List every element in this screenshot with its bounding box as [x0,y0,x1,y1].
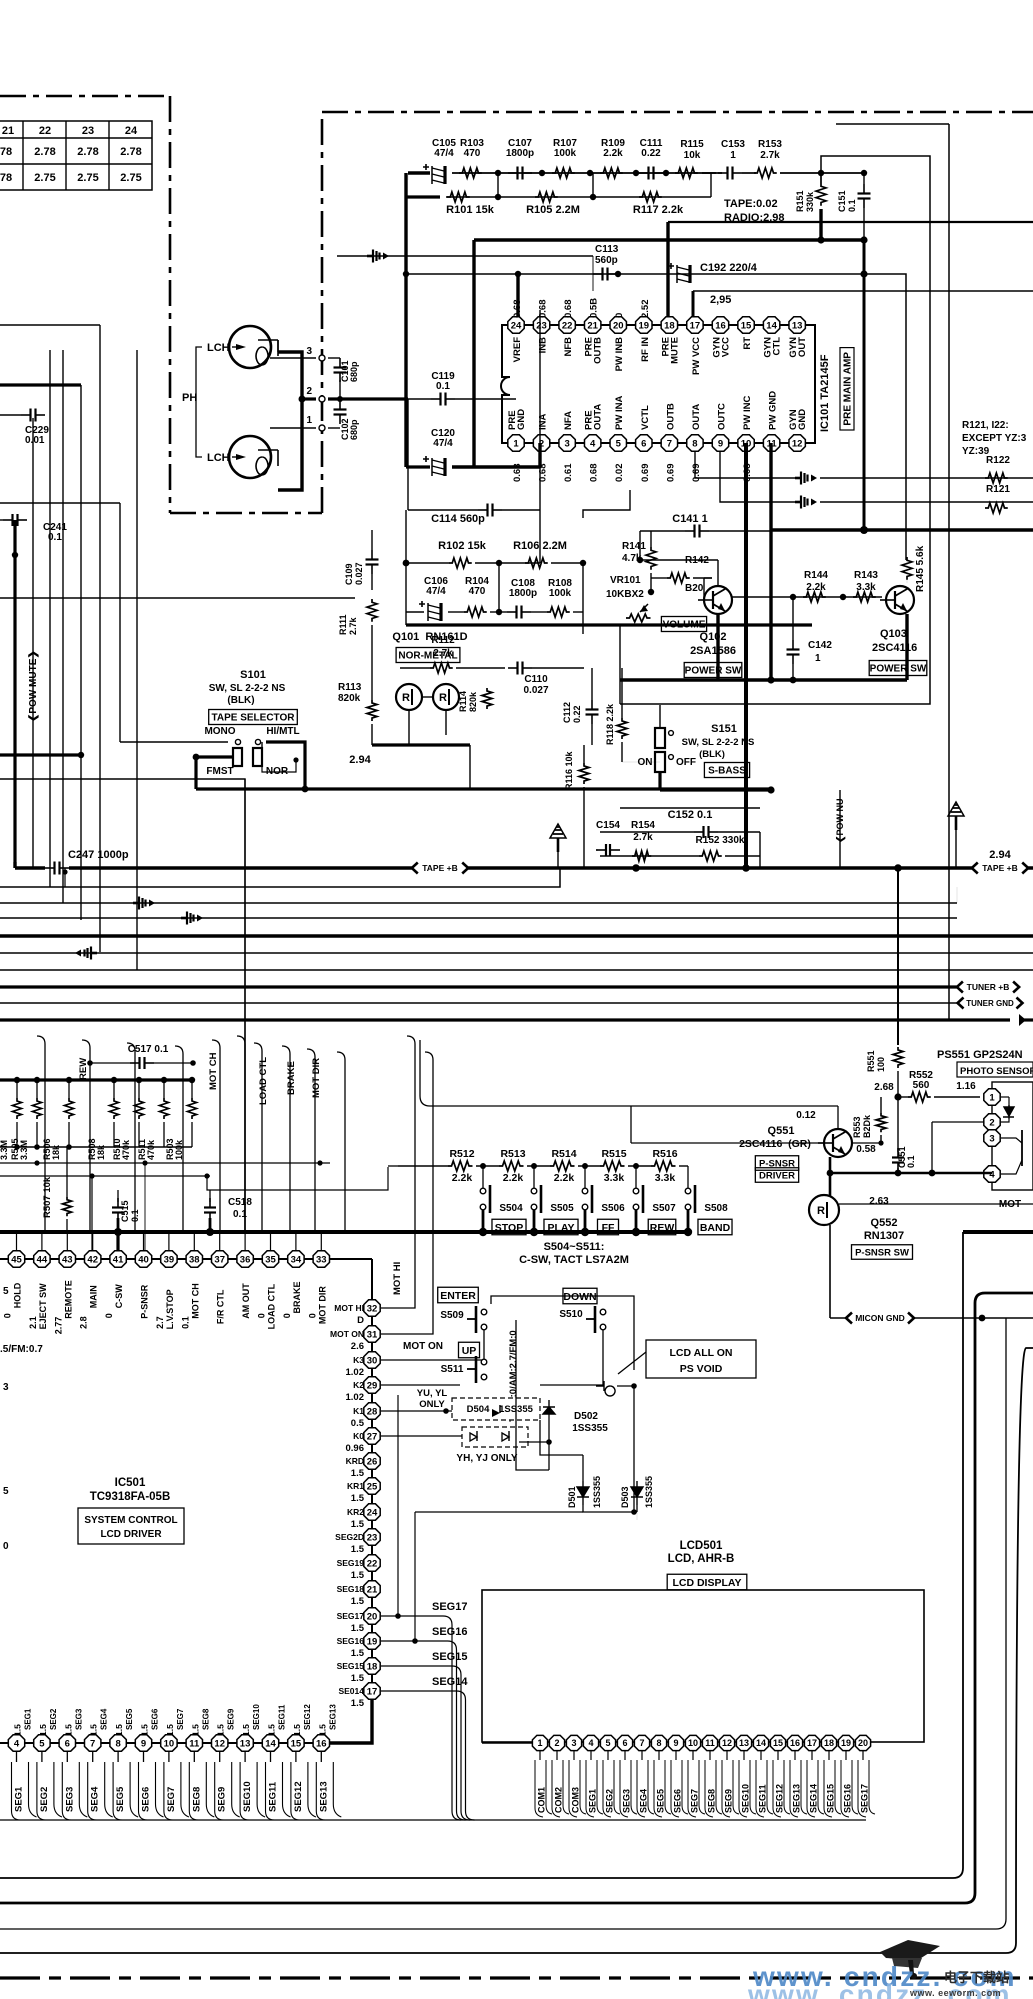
svg-text:R513: R513 [500,1148,525,1160]
signal arrow y478 [795,477,801,480]
svg-text:3: 3 [3,1382,9,1393]
svg-text:100k: 100k [554,148,577,159]
svg-text:1.5: 1.5 [140,1724,150,1736]
svg-text:1.16: 1.16 [956,1081,976,1092]
svg-text:SEG8: SEG8 [707,1789,717,1813]
svg-text:2.2k: 2.2k [554,1172,575,1184]
pin 35 IC501 [270,1232,272,1250]
svg-text:5: 5 [616,438,622,449]
svg-text:SEG10: SEG10 [741,1784,751,1813]
pin 19 IC501 [364,1633,380,1649]
switch S506 tact [582,1163,588,1169]
svg-text:PW VCC: PW VCC [691,337,702,375]
svg-text:23: 23 [367,1532,378,1543]
svg-text:.5/FM:0.7: .5/FM:0.7 [0,1344,43,1355]
svg-text:SEG8: SEG8 [191,1787,202,1812]
transistor Q102 2SA1586 [704,586,732,614]
svg-text:10: 10 [164,1738,175,1749]
svg-text:R115: R115 [680,139,704,150]
svg-text:23: 23 [82,125,94,137]
wire IC501 bottom-right corner thick [330,1700,372,1743]
svg-text:7: 7 [90,1738,95,1749]
svg-text:3.3M: 3.3M [0,1140,9,1160]
svg-text:5: 5 [3,1486,9,1497]
svg-text:9: 9 [673,1738,678,1748]
svg-text:38: 38 [189,1254,200,1265]
svg-text:SEG18: SEG18 [337,1584,365,1594]
svg-text:3: 3 [306,346,312,357]
switch S509 ENTER [438,1287,479,1303]
svg-text:R: R [402,692,410,704]
wire r153 to x930 frame [620,156,930,704]
svg-text:GND: GND [797,409,808,430]
wire mid vertical x540 [539,310,541,563]
svg-text:78: 78 [0,172,12,184]
svg-text:14: 14 [766,320,777,331]
wire pin11 thick down [769,443,772,680]
svg-text:2: 2 [989,1117,994,1128]
pin 23 IC101 [533,317,549,333]
wire bank bottom [0,1146,192,1148]
wire K2 row [381,1384,460,1386]
svg-text:PS VOID: PS VOID [680,1363,723,1375]
svg-text:R143: R143 [854,570,878,581]
svg-text:SEG1: SEG1 [14,1786,25,1812]
svg-text:Q102: Q102 [700,631,727,643]
wire pre-out feedback column [863,240,866,530]
svg-text:MUTE: MUTE [669,337,680,364]
svg-text:2SC4116 (GR): 2SC4116 (GR) [739,1138,811,1150]
label LCD ALL ON box [646,1340,756,1378]
pin 22 IC501 [364,1555,380,1571]
svg-text:S506: S506 [601,1203,625,1214]
pin 11 LCD501 [702,1735,717,1750]
wire left thick y755 [0,753,81,756]
svg-text:MOT: MOT [999,1199,1021,1210]
svg-text:TAPE SELECTOR: TAPE SELECTOR [212,713,296,724]
wire frame v x975 thick [0,1293,1033,1903]
svg-text:LCH: LCH [207,452,230,464]
pin 11 IC101 [763,435,779,451]
wire bus y1020 thick [0,1018,1010,1021]
svg-text:470k: 470k [121,1139,131,1160]
svg-text:2.2k: 2.2k [603,148,623,159]
svg-text:32: 32 [367,1303,378,1314]
svg-text:www. eeworm. com: www. eeworm. com [909,1988,1001,1998]
wire lcd right edge link [923,1590,925,1742]
svg-text:MOT DIR: MOT DIR [317,1286,327,1324]
wire y256 arrow line [337,255,593,257]
label BAND box [698,1219,732,1235]
pin 10 IC501 [161,1735,177,1751]
svg-text:VREF: VREF [512,337,523,363]
pin 18 IC101 [661,317,677,333]
pin 39 IC501 [168,1232,170,1250]
svg-text:33: 33 [316,1254,327,1265]
pin 27 IC501 [364,1428,380,1444]
svg-text:KR1: KR1 [347,1481,364,1491]
svg-text:ON: ON [638,757,653,768]
svg-text:PW INB: PW INB [614,337,625,371]
svg-text:1: 1 [537,1738,542,1748]
svg-text:0.58: 0.58 [856,1144,876,1155]
svg-text:IC101 TA2145F: IC101 TA2145F [819,354,831,432]
pin 7 LCD501 [634,1735,649,1750]
svg-text:R516: R516 [652,1148,677,1160]
svg-text:S510: S510 [559,1309,583,1320]
svg-text:20: 20 [858,1738,868,1748]
wire pin1 gnd col [538,443,541,467]
svg-text:16: 16 [790,1738,800,1748]
svg-text:HI/MTL: HI/MTL [266,726,299,737]
pin 5 IC501 [34,1735,50,1751]
resistor R105 2.2M [498,196,593,198]
svg-text:R122: R122 [986,455,1010,466]
svg-text:2.68: 2.68 [874,1082,894,1093]
diode pair dashed box [462,1427,528,1447]
wire right vert x949 long [948,124,950,1020]
svg-text:36: 36 [240,1254,251,1265]
svg-text:❮POW MUTE❯: ❮POW MUTE❯ [28,650,39,722]
svg-text:41: 41 [113,1254,124,1265]
svg-text:SEG7: SEG7 [176,1708,185,1730]
svg-text:RT: RT [742,337,753,350]
svg-text:C515: C515 [120,1200,130,1222]
svg-text:28: 28 [367,1406,378,1417]
svg-text:LCD ALL ON: LCD ALL ON [670,1347,733,1359]
wire MOT HI from pin32 [381,1232,415,1308]
svg-text:S-BASS: S-BASS [708,766,746,777]
wire thick x406 column [404,173,407,274]
label MICON GND [830,1317,1033,1319]
svg-text:S505: S505 [550,1203,574,1214]
svg-text:YU, YL: YU, YL [417,1388,448,1399]
svg-text:SEG2: SEG2 [49,1708,58,1730]
svg-text:0: 0 [614,313,625,318]
pin 14 LCD501 [753,1735,768,1750]
svg-text:47/4: 47/4 [426,586,446,597]
svg-text:R515: R515 [601,1148,626,1160]
pin 4 IC501 [8,1735,24,1751]
svg-text:SEG3: SEG3 [74,1708,83,1730]
svg-text:1.5: 1.5 [351,1519,365,1530]
svg-text:POWER SW: POWER SW [685,666,742,677]
pin 11 IC501 [186,1735,202,1751]
wire r512 row feed [388,1165,398,1167]
wire q552 emitter down [829,1225,831,1318]
svg-text:16: 16 [715,320,726,331]
svg-text:15: 15 [773,1738,783,1748]
svg-text:RF IN: RF IN [640,337,651,362]
svg-text:SEG6: SEG6 [673,1789,683,1813]
wire top rail y173 [452,172,716,174]
svg-text:SE014: SE014 [338,1686,364,1696]
svg-text:1.5: 1.5 [351,1698,365,1709]
wire left horiz stubs [0,324,100,326]
svg-text:1.5: 1.5 [216,1724,226,1736]
svg-text:K1: K1 [353,1406,364,1416]
svg-text:2.94: 2.94 [989,849,1011,861]
svg-text:SEG2: SEG2 [39,1787,50,1812]
pin 16 IC101 [712,317,728,333]
svg-text:SEG17: SEG17 [337,1611,365,1621]
svg-text:20: 20 [367,1611,378,1622]
svg-text:3: 3 [989,1133,994,1144]
wire y222 radio line [668,221,1033,223]
svg-text:11: 11 [189,1738,200,1749]
svg-text:❮POW NU: ❮POW NU [835,798,846,843]
svg-text:POWER SW: POWER SW [870,664,927,675]
svg-text:0.68: 0.68 [563,300,574,319]
svg-text:2.7: 2.7 [155,1316,165,1329]
wire q103 collector [905,614,908,680]
svg-text:C517 0.1: C517 0.1 [128,1044,169,1055]
svg-text:9: 9 [718,438,723,449]
svg-text:2SA1586: 2SA1586 [690,645,736,657]
svg-text:10: 10 [688,1738,698,1748]
pin 13 LCD501 [736,1735,751,1750]
svg-text:0.1: 0.1 [130,1209,140,1222]
pin 24 IC501 [364,1504,380,1520]
svg-text:MOT ON: MOT ON [330,1329,364,1339]
svg-text:BRAKE: BRAKE [292,1281,302,1313]
svg-text:R112: R112 [431,635,455,646]
pin 45 IC501 [16,1232,18,1250]
wire pin8 stub [695,451,795,478]
pin 4 IC101 [584,435,600,451]
svg-text:35: 35 [265,1254,276,1265]
svg-text:SEG10: SEG10 [242,1781,253,1812]
svg-text:2.78: 2.78 [34,146,55,158]
svg-text:0.1: 0.1 [233,1209,247,1220]
pin 7 IC101 [661,435,677,451]
node jack pin1 [270,427,316,429]
pin 18 LCD501 [821,1735,836,1750]
pin 34 IC501 [295,1232,297,1250]
svg-text:R116 10k: R116 10k [564,750,574,790]
svg-text:15: 15 [741,320,752,331]
svg-text:SEG7: SEG7 [690,1789,700,1813]
pin 6 IC501 [59,1735,75,1751]
svg-text:13: 13 [240,1738,251,1749]
svg-text:S101: S101 [240,669,266,681]
pin 28 IC501 [364,1403,380,1419]
svg-text:2.77: 2.77 [53,1317,63,1335]
svg-text:NFB: NFB [563,337,574,357]
svg-text:470k: 470k [146,1139,156,1160]
svg-text:100k: 100k [174,1139,184,1160]
svg-text:2.75: 2.75 [120,172,141,184]
svg-text:PW INA: PW INA [614,396,625,430]
switch S505 tact [531,1163,537,1169]
svg-text:C153: C153 [721,139,745,150]
svg-text:2.7k: 2.7k [760,150,780,161]
svg-text:AM OUT: AM OUT [241,1283,251,1319]
IC101 top pin rail [516,324,797,326]
svg-text:D503: D503 [620,1486,630,1508]
svg-text:UP: UP [462,1345,477,1357]
svg-text:5: 5 [3,1286,9,1297]
switch S510 DOWN [563,1288,597,1304]
svg-text:8: 8 [656,1738,661,1748]
wire q102 emitter [717,560,719,586]
pin 43 IC501 [66,1232,68,1250]
svg-text:OUTA: OUTA [593,404,604,430]
svg-text:TAPE +B: TAPE +B [982,863,1018,873]
svg-text:SEG4: SEG4 [90,1786,101,1812]
svg-text:5: 5 [605,1738,610,1748]
pin 29 IC501 [364,1377,380,1393]
pin 9 LCD501 [668,1735,683,1750]
svg-text:R113: R113 [338,682,362,693]
svg-text:R105 2.2M: R105 2.2M [526,204,580,216]
svg-text:OUTA: OUTA [691,404,702,430]
wire x620 frame [619,625,621,704]
svg-text:SEG4: SEG4 [100,1708,109,1730]
svg-text:4.7k: 4.7k [622,553,642,564]
svg-text:0.5B: 0.5B [589,298,600,318]
svg-text:14: 14 [756,1738,766,1748]
svg-text:SEG16: SEG16 [843,1784,853,1813]
svg-text:0.027: 0.027 [354,562,364,585]
svg-text:Q103: Q103 [880,628,907,640]
svg-text:S508: S508 [704,1203,728,1214]
svg-text:C141 1: C141 1 [672,513,707,525]
svg-text:PHOTO SENSOR: PHOTO SENSOR [960,1066,1033,1077]
svg-text:NFA: NFA [563,411,574,430]
svg-text:1.5: 1.5 [165,1724,175,1736]
diode photosensor led [1003,1105,1014,1119]
svg-text:0.68: 0.68 [589,464,600,483]
jack LCH top [229,326,271,368]
svg-text:SEG15: SEG15 [337,1661,365,1671]
svg-text:SEG7: SEG7 [166,1787,177,1812]
diode D502 1SS355 [543,1400,555,1414]
svg-text:SEG11: SEG11 [268,1781,279,1812]
svg-text:SEG3: SEG3 [64,1787,75,1812]
wire main thick rail y1232 [0,1230,688,1234]
svg-text:VCC: VCC [720,337,731,357]
svg-text:0.61: 0.61 [563,463,574,482]
pin 12 IC501 [212,1735,228,1751]
svg-text:0.5: 0.5 [351,1418,365,1429]
svg-text:MOT ON: MOT ON [403,1341,443,1352]
svg-text:2.2k: 2.2k [503,1172,524,1184]
svg-text:0: 0 [282,1313,292,1318]
pin 10 IC101 [738,435,754,451]
wire pin24 thick stub [516,274,519,323]
svg-text:1.5: 1.5 [351,1623,365,1634]
svg-text:2.2k: 2.2k [452,1172,473,1184]
svg-text:SEG1: SEG1 [24,1708,33,1730]
svg-text:42: 42 [87,1254,98,1265]
svg-text:SEG16: SEG16 [432,1626,467,1638]
svg-text:R151: R151 [795,190,805,212]
svg-text:18: 18 [367,1661,378,1672]
wire bank top thick [0,1078,193,1081]
svg-text:3: 3 [564,438,569,449]
capacitor C229 0.01 [21,414,31,416]
svg-text:SEG16: SEG16 [337,1636,365,1646]
wire diode net frame [582,1455,584,1481]
svg-text:1.5: 1.5 [351,1673,365,1684]
wire bus y936 thick [0,934,1033,937]
pin 20 IC501 [364,1608,380,1624]
transistor Q552 RN1307 [829,1173,832,1196]
svg-text:SEG5: SEG5 [125,1708,134,1730]
svg-text:8: 8 [692,438,697,449]
pin 12 LCD501 [719,1735,734,1750]
svg-text:YH, YJ ONLY: YH, YJ ONLY [456,1453,517,1464]
svg-text:470: 470 [469,586,486,597]
pin 23 IC501 [364,1529,380,1545]
svg-text:SEG2: SEG2 [605,1789,615,1813]
svg-text:R154: R154 [631,820,655,831]
svg-text:SEG15: SEG15 [826,1784,836,1813]
svg-text:R121: R121 [986,484,1010,495]
svg-text:560p: 560p [595,255,618,266]
pin 2 IC101 [533,435,549,451]
svg-text:CTL: CTL [772,337,783,356]
svg-text:2.6: 2.6 [351,1341,364,1352]
svg-text:电子下载站: 电子下载站 [944,1970,1009,1985]
svg-text:2.8: 2.8 [79,1316,89,1329]
pin 37 IC501 [219,1232,221,1250]
pin 40 IC501 [143,1232,145,1250]
svg-text:1.5: 1.5 [89,1724,99,1736]
svg-text:INA: INA [538,414,549,431]
wire q102 collector thick [716,614,719,680]
svg-text:0.69: 0.69 [691,464,702,483]
svg-text:TAPE +B: TAPE +B [422,863,458,873]
svg-text:10KBX2: 10KBX2 [606,589,644,600]
svg-text:PW GND: PW GND [768,391,779,430]
svg-text:0.1: 0.1 [48,532,62,543]
svg-text:SEG14: SEG14 [809,1784,819,1813]
svg-text:SEG6: SEG6 [151,1708,160,1730]
svg-text:13: 13 [739,1738,749,1748]
diode lcd-all-on symbol [618,1352,646,1374]
svg-text:C142: C142 [808,640,832,651]
svg-text:Q101 RN161D: Q101 RN161D [392,631,467,643]
svg-text:1800p: 1800p [506,148,534,159]
pin 3 IC101 [559,435,575,451]
svg-text:D504: D504 [467,1404,490,1415]
svg-text:0.69: 0.69 [640,464,651,483]
svg-text:MONO: MONO [204,726,235,737]
wire bus y1003 TUNER GND [0,1002,962,1004]
pin 10 LCD501 [685,1735,700,1750]
svg-text:0: 0 [307,1313,317,1318]
svg-text:R106 2.2M: R106 2.2M [513,540,567,552]
svg-text:SEG6: SEG6 [141,1787,152,1812]
svg-text:MOT CH: MOT CH [190,1283,200,1319]
svg-text:(BLK): (BLK) [227,695,254,706]
svg-text:0.96: 0.96 [346,1443,365,1454]
svg-text:R114: R114 [458,691,468,712]
svg-text:C113: C113 [595,244,619,255]
pin 4 LCD501 [583,1735,598,1750]
svg-text:45: 45 [11,1254,22,1265]
svg-text:0.1: 0.1 [436,381,450,392]
table voltage chart [0,121,152,190]
label PLAY box [544,1219,578,1235]
svg-text:TUNER +B: TUNER +B [967,982,1010,992]
transistor Q103 2SC4116 [886,586,914,614]
svg-text:C110: C110 [524,674,548,685]
svg-text:C109: C109 [344,563,354,585]
resistor R101 15k [406,195,440,198]
